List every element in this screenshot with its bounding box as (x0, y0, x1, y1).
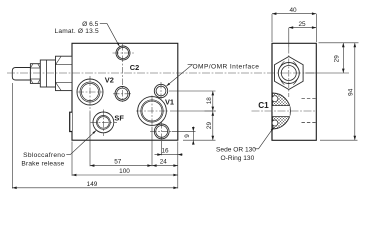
arrows 57 (90, 164, 94, 167)
hex chamfer diagonals (56, 57, 62, 65)
extension block right top (315, 14, 317, 42)
locknut facet lines (30, 67, 40, 69)
svg-text:57: 57 (114, 159, 122, 166)
svg-text:C2: C2 (130, 63, 139, 72)
svg-text:SF: SF (114, 114, 124, 123)
arrows 29 (212, 111, 215, 115)
extension V1 center (170, 110, 216, 112)
port V1 (138, 97, 167, 126)
extension V1 center (151, 127, 153, 166)
extension hex center right (305, 72, 349, 74)
SF horizontal centerline (91, 121, 118, 123)
counterbored hole dia 6.5 (116, 46, 130, 60)
arrows 18 (212, 91, 215, 95)
dim line 149 (12, 187, 178, 189)
svg-text:OMP/OMR Interface: OMP/OMR Interface (193, 63, 260, 70)
V1 vertical centerline (151, 96, 153, 128)
OMP/OMR interface hole (154, 84, 167, 97)
svg-text:V2: V2 (105, 76, 114, 85)
arrows 40 (272, 12, 276, 15)
svg-text:Sbloccafreno: Sbloccafreno (23, 152, 65, 159)
svg-text:Ø 6.5: Ø 6.5 (82, 21, 98, 28)
extension hex center up (288, 28, 290, 47)
V2 horizontal centerline (78, 91, 103, 93)
main horizontal centerline (cartridge / plug axis) (7, 44, 316, 141)
svg-text:25: 25 (298, 21, 306, 28)
OMP hole vertical centerline (160, 82, 162, 100)
SF vertical centerline (102, 110, 104, 137)
arrows 100 (72, 174, 76, 177)
small hole vertical centerline (161, 122, 163, 141)
cartridge large hex (56, 56, 73, 90)
extension small hole center (172, 130, 196, 132)
extension block left top (271, 14, 273, 42)
V1 horizontal centerline (136, 110, 168, 112)
C2 horizontal centerline (113, 93, 132, 95)
svg-text:100: 100 (119, 168, 130, 175)
washer split line (46, 60, 48, 87)
cartridge stem (12, 68, 30, 81)
hidden lines (302, 98, 317, 100)
hex facet lines (56, 64, 73, 66)
dim line 25 (289, 27, 317, 29)
C1 bore band (272, 106, 290, 117)
dim line 16 (155, 154, 183, 156)
extension body left (71, 142, 73, 176)
extension stem tip (11, 83, 13, 189)
C1 hatched boss semicircle (272, 93, 290, 129)
svg-text:Lamat. Ø 13.5: Lamat. Ø 13.5 (55, 28, 100, 35)
dim line 29 side (342, 43, 344, 73)
dim line 9 (192, 127, 194, 145)
svg-text:40: 40 (289, 7, 297, 14)
arrows 24 (152, 164, 156, 167)
centerline C1 / V1 horizontal axis (205, 110, 217, 112)
arrows 29 side (342, 43, 345, 47)
extension top right horizontal (319, 42, 359, 44)
arrows 9 (outside) (192, 127, 195, 131)
arrows 94 (354, 43, 357, 47)
C1 O-ring screw hole top (272, 96, 278, 102)
cartridge locknut (30, 64, 40, 84)
dim line 40 (272, 13, 316, 15)
svg-text:24: 24 (160, 159, 168, 166)
hole horizontal centerline (113, 52, 135, 54)
svg-text:O-Ring 130: O-Ring 130 (221, 155, 255, 162)
arrows 25 (289, 26, 293, 29)
extension OMP hole center (169, 90, 216, 92)
arrows 149 (12, 187, 16, 190)
C1 O-ring screw hole bottom (272, 120, 278, 126)
svg-text:29: 29 (333, 55, 340, 63)
hex plug (275, 57, 304, 90)
side block left edge (271, 43, 273, 140)
svg-text:149: 149 (87, 181, 98, 188)
extension body bottom (183, 139, 216, 141)
svg-text:29: 29 (206, 122, 213, 130)
small hole below V1 (154, 124, 169, 139)
port V2 (77, 79, 103, 105)
dim line 100 (72, 174, 178, 176)
hex plug vertical centerline (288, 47, 290, 97)
svg-text:18: 18 (206, 97, 213, 105)
dim line 94 (354, 43, 356, 140)
V2 vertical centerline (89, 76, 91, 112)
svg-text:9: 9 (184, 134, 191, 138)
arrows 16 (outside) (157, 153, 161, 156)
svg-text:Brake release: Brake release (21, 161, 64, 168)
svg-text:V1: V1 (165, 98, 174, 107)
nut chamfer arcs (293, 79, 297, 85)
extension body right (177, 142, 179, 189)
hole/C2 vertical centerline (121, 44, 123, 102)
extension small hole (161, 141, 163, 155)
port SF brake release (93, 112, 114, 133)
svg-text:C1: C1 (258, 101, 269, 110)
dim line 57 / 24 (90, 165, 178, 167)
svg-text:Sede OR 130: Sede OR 130 (216, 147, 256, 154)
extension bottom right horizontal (320, 139, 358, 141)
side block outline (272, 43, 316, 140)
small hole horizontal centerline (150, 130, 172, 132)
side boss on body left edge (70, 112, 72, 131)
svg-text:94: 94 (347, 88, 354, 96)
dim line 18/29 (212, 91, 214, 140)
valve body outline (72, 43, 178, 140)
port C2 (115, 87, 130, 102)
svg-text:16: 16 (161, 148, 169, 155)
extension V2 center (89, 112, 91, 166)
cartridge washer/cylinder (40, 60, 55, 87)
